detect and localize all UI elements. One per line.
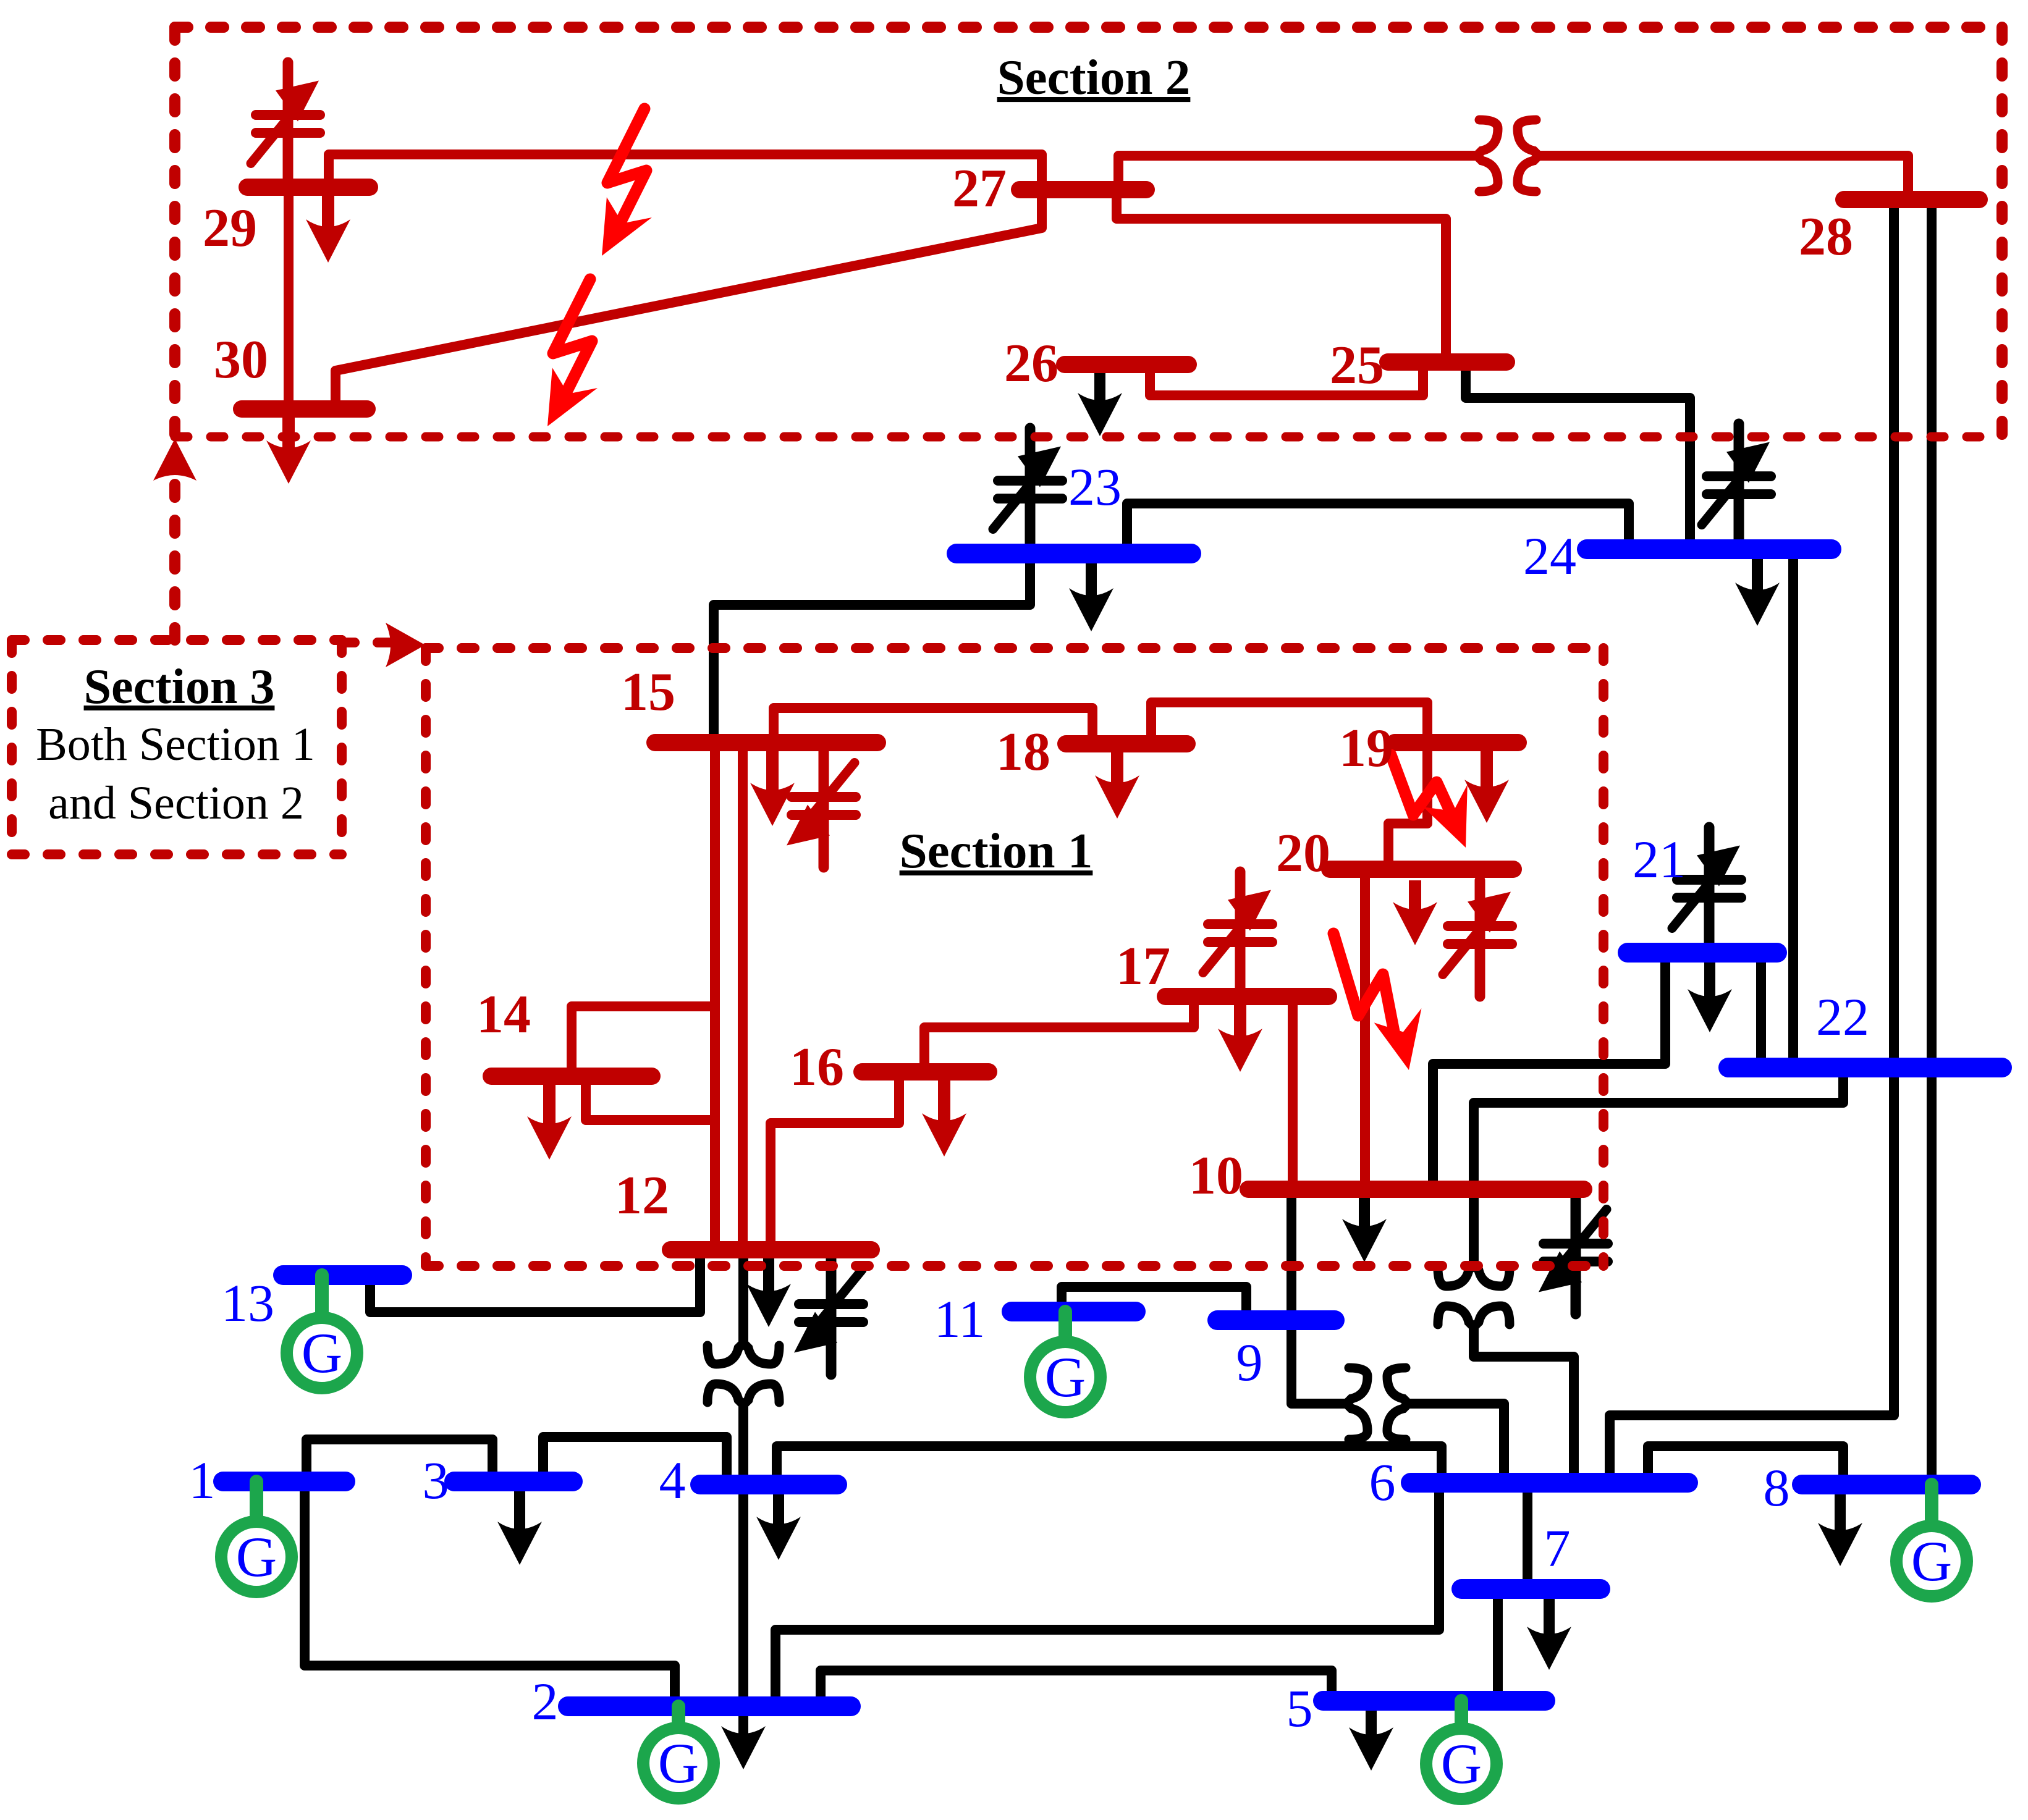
- svg-text:8: 8: [1764, 1458, 1790, 1517]
- svg-text:7: 7: [1544, 1519, 1571, 1578]
- svg-text:3: 3: [423, 1451, 449, 1510]
- svg-text:9: 9: [1236, 1333, 1263, 1392]
- svg-text:11: 11: [934, 1289, 986, 1349]
- svg-text:Section 1: Section 1: [900, 823, 1093, 878]
- svg-text:12: 12: [615, 1166, 669, 1226]
- svg-text:5: 5: [1287, 1679, 1313, 1738]
- svg-text:24: 24: [1523, 526, 1576, 586]
- svg-text:1: 1: [189, 1451, 216, 1510]
- svg-text:Both Section 1: Both Section 1: [36, 718, 315, 770]
- svg-text:4: 4: [659, 1451, 686, 1510]
- svg-text:29: 29: [203, 198, 257, 258]
- svg-text:21: 21: [1633, 830, 1686, 889]
- svg-text:Section 3: Section 3: [84, 660, 275, 714]
- svg-text:13: 13: [221, 1273, 274, 1333]
- svg-text:G: G: [1441, 1732, 1482, 1795]
- svg-text:20: 20: [1276, 824, 1330, 883]
- svg-text:28: 28: [1799, 207, 1853, 267]
- svg-text:10: 10: [1189, 1146, 1243, 1206]
- svg-text:and Section 2: and Section 2: [48, 777, 304, 829]
- svg-text:G: G: [302, 1321, 342, 1384]
- svg-text:30: 30: [214, 330, 268, 390]
- svg-text:27: 27: [952, 159, 1007, 219]
- svg-text:G: G: [658, 1732, 699, 1795]
- svg-text:14: 14: [476, 985, 531, 1045]
- svg-text:2: 2: [532, 1672, 559, 1731]
- svg-text:19: 19: [1339, 718, 1393, 778]
- svg-text:26: 26: [1004, 334, 1058, 394]
- svg-text:23: 23: [1068, 457, 1122, 516]
- svg-text:17: 17: [1116, 937, 1170, 996]
- svg-text:16: 16: [790, 1037, 844, 1097]
- svg-text:15: 15: [621, 662, 675, 722]
- svg-text:22: 22: [1816, 987, 1869, 1047]
- svg-text:Section 2: Section 2: [997, 49, 1191, 105]
- svg-text:G: G: [1045, 1346, 1086, 1409]
- svg-text:G: G: [236, 1525, 277, 1588]
- svg-text:18: 18: [996, 722, 1050, 782]
- svg-text:6: 6: [1369, 1452, 1396, 1512]
- svg-text:25: 25: [1330, 335, 1384, 395]
- svg-text:G: G: [1911, 1530, 1952, 1593]
